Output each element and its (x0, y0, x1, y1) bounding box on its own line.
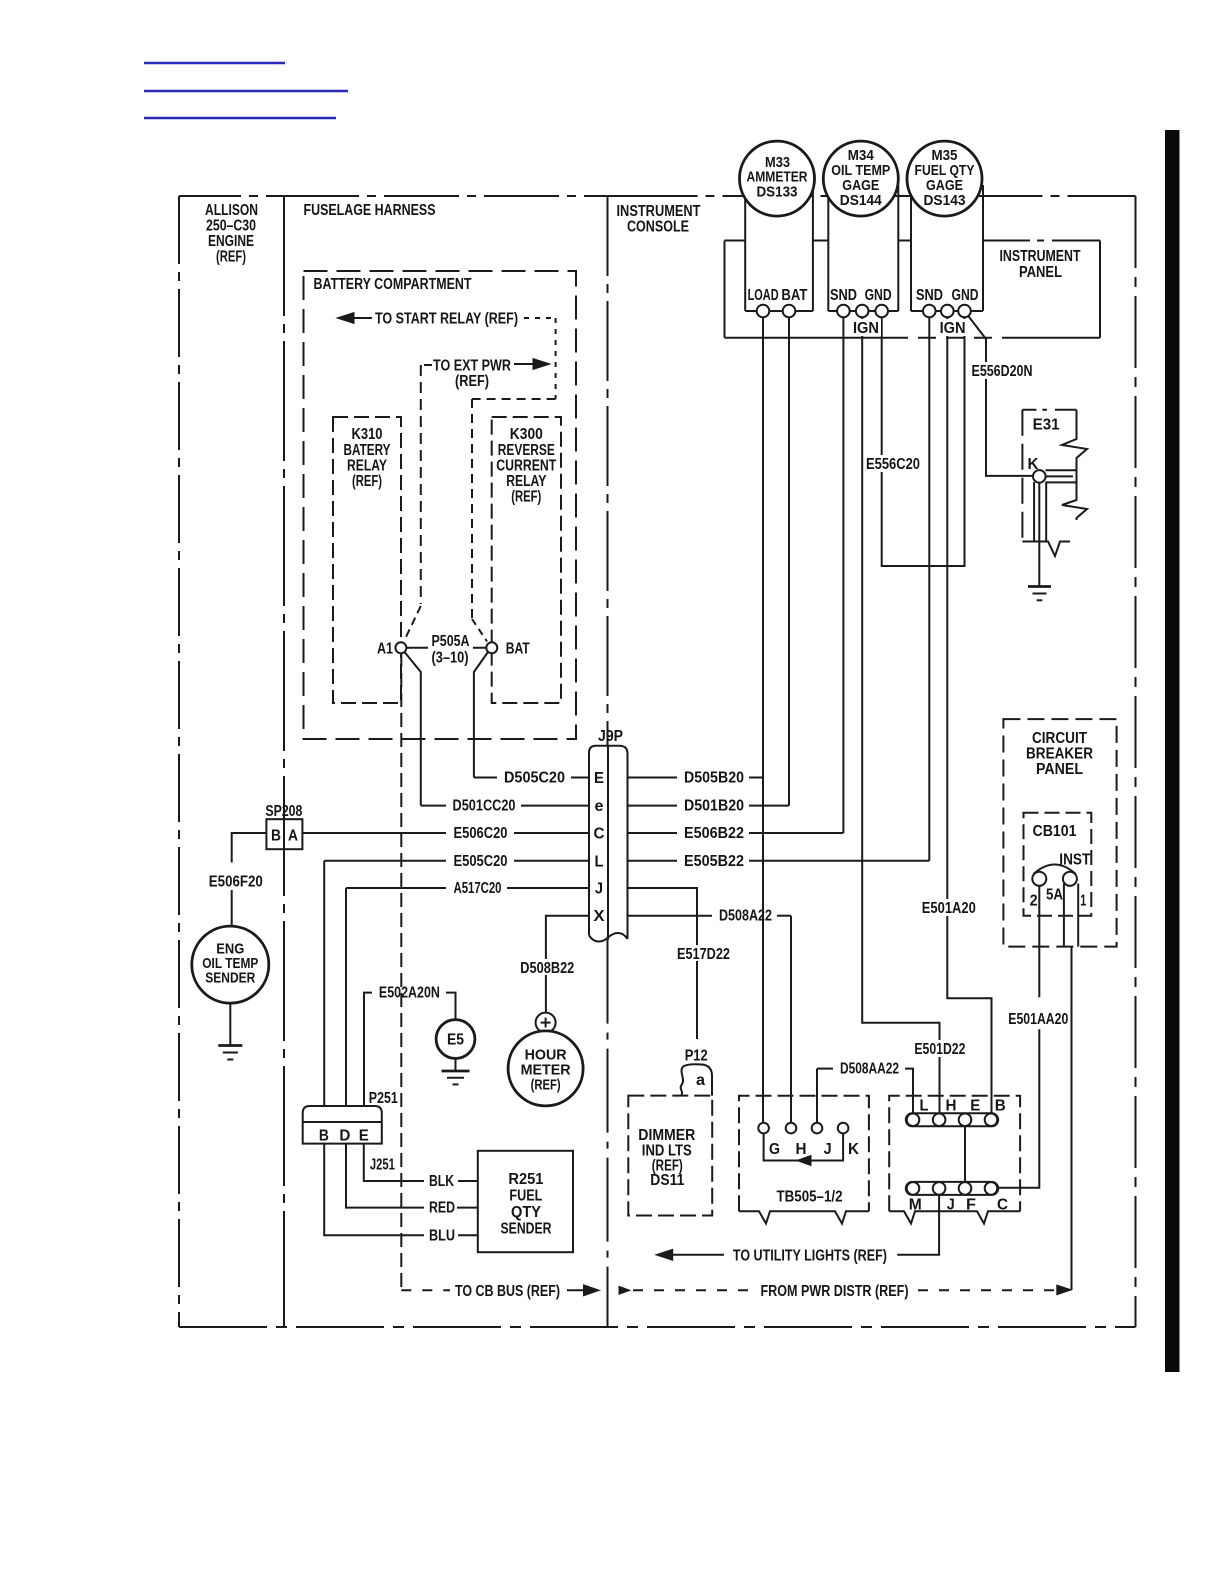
svg-text:(REF): (REF) (511, 489, 541, 506)
svg-text:E556C20: E556C20 (866, 456, 920, 473)
terminal E5 (436, 1020, 475, 1059)
ground (engine oil temp sender) (218, 1046, 242, 1060)
pin C of J9P (594, 826, 605, 843)
svg-text:FUSELAGE HARNESS: FUSELAGE HARNESS (304, 202, 436, 219)
svg-text:D501CC20: D501CC20 (453, 798, 516, 815)
svg-text:RED: RED (429, 1200, 455, 1217)
svg-text:SENDER: SENDER (501, 1221, 552, 1238)
svg-text:E501AA20: E501AA20 (1008, 1011, 1068, 1028)
svg-text:CIRCUIT: CIRCUIT (1032, 730, 1087, 747)
svg-text:A: A (288, 827, 298, 844)
wire D501CC20 (421, 805, 589, 807)
label BATTERY COMPARTMENT (314, 276, 472, 293)
box CIRCUIT BREAKER PANEL (1003, 719, 1116, 947)
label D501CC20 (453, 798, 516, 815)
svg-text:E502A20N: E502A20N (379, 985, 440, 1002)
label TB505-1/2 (777, 1189, 843, 1206)
terminal IGN (M35) (941, 305, 954, 318)
terminal K of TB505 (838, 1123, 849, 1134)
svg-text:(REF): (REF) (216, 249, 246, 266)
wire J9P-J to P12 (E517D22) (628, 888, 698, 1039)
svg-text:L: L (595, 853, 604, 870)
wire BAT down to D501B20 (788, 311, 790, 806)
label FUSELAGE HARNESS (304, 202, 436, 219)
svg-text:QTY: QTY (511, 1204, 541, 1221)
label TO EXT PWR (REF) (433, 358, 511, 391)
svg-text:D: D (339, 1127, 350, 1144)
label J251 (370, 1157, 395, 1174)
wire M35-IGN down (E501A20) to strip B (947, 311, 991, 1115)
dashed wire FROM PWR DISTR (right) (918, 1289, 1056, 1291)
svg-text:D508B22: D508B22 (520, 960, 574, 977)
svg-text:L: L (920, 1098, 929, 1115)
wire E505C20 drop to P251-B (323, 861, 325, 1106)
svg-text:INSTRUMENT: INSTRUMENT (1000, 248, 1081, 265)
wire LOAD down to TB505-G (762, 311, 764, 1123)
wire E505C20 (324, 860, 589, 862)
label E506B22 (684, 825, 744, 842)
wire D505C20 (474, 777, 589, 779)
wire D508B22 from J9P-X to hour meter (546, 916, 589, 1013)
svg-text:D508AA22: D508AA22 (840, 1061, 899, 1078)
dashed path TO START RELAY to BAT (472, 318, 556, 642)
label G (769, 1141, 780, 1158)
svg-text:SND: SND (916, 287, 943, 304)
pin E of P251 (359, 1127, 369, 1144)
pin X of J9P (594, 908, 605, 925)
meter HOUR METER (REF) (508, 1031, 583, 1106)
gauge M35 FUEL QTY GAGE DS143 (907, 141, 982, 216)
svg-text:ALLISON: ALLISON (205, 202, 258, 219)
svg-text:BLU: BLU (429, 1227, 455, 1244)
wire E31-K to ground (1038, 483, 1040, 587)
svg-text:C: C (594, 826, 605, 843)
label E501A20 (921, 899, 979, 917)
svg-text:DS143: DS143 (924, 192, 966, 209)
wire M34-SND down to E506B22 (842, 311, 844, 833)
svg-text:RELAY: RELAY (506, 473, 546, 490)
pin B of P251 (319, 1127, 329, 1144)
boundary: FUSELAGE / INSTRUMENT CONSOLE divider (above J9P) (607, 196, 609, 746)
label E31 (1033, 417, 1060, 434)
label INSTRUMENT PANEL (1000, 248, 1081, 281)
hyperlink rule 1 (144, 62, 285, 64)
arrow TO EXT PWR (514, 359, 550, 370)
strip lower bar (906, 1182, 998, 1195)
svg-text:SP208: SP208 (265, 803, 302, 820)
terminal SND (M35) (923, 305, 936, 318)
svg-text:C: C (997, 1197, 1008, 1214)
wire E506B22 (628, 832, 844, 834)
terminal BAT (M33) (783, 305, 796, 318)
svg-text:ENGINE: ENGINE (208, 233, 254, 250)
strip upper bar (906, 1113, 998, 1126)
svg-text:H: H (946, 1098, 957, 1115)
svg-text:B: B (995, 1098, 1006, 1115)
label BLK (429, 1173, 454, 1190)
splice SP208 box (266, 819, 302, 849)
breaker CB101 arc (1034, 865, 1076, 875)
pin D of P251 (339, 1127, 350, 1144)
svg-text:BAT: BAT (506, 640, 530, 657)
svg-text:E31: E31 (1033, 417, 1060, 434)
wire TB505-J up to D508AA22 (816, 1069, 818, 1123)
instrument panel box (725, 241, 1101, 338)
ground (E31) (1028, 587, 1051, 601)
wire E556D20N from M35-GND to E31-K (968, 316, 1032, 476)
gauge M33 body (745, 185, 813, 311)
boundary: ALLISON / FUSELAGE divider (283, 196, 285, 1327)
label IGN (M34) (851, 319, 881, 337)
wire E506C20 (302, 832, 589, 834)
wire from pwr distr up to CB101-1 (1071, 947, 1073, 1290)
boundary: FUSELAGE HARNESS top (284, 195, 608, 197)
svg-text:e: e (595, 798, 604, 815)
svg-text:TO UTILITY LIGHTS (REF): TO UTILITY LIGHTS (REF) (733, 1247, 887, 1264)
dashed wire FROM PWR DISTR (left) (633, 1289, 754, 1291)
label K310 BATERY RELAY (REF) (344, 426, 391, 490)
gauge M35 body (911, 185, 983, 311)
wire A517C20 drop to P251-D (345, 888, 347, 1106)
svg-text:G: G (769, 1141, 780, 1158)
label CIRCUIT BREAKER PANEL (1026, 730, 1093, 778)
pin a of P12 (696, 1072, 705, 1089)
box TB505 (739, 1096, 869, 1224)
wire J9P-X to D508A22 (628, 915, 792, 917)
label E506F20 (209, 874, 263, 891)
svg-text:E: E (359, 1127, 369, 1144)
label K (E31 stud) (1028, 456, 1039, 473)
ground (E5) (442, 1071, 470, 1084)
label BAT (M33) (781, 287, 807, 304)
svg-text:(REF): (REF) (531, 1077, 561, 1094)
label SND (M34) (830, 287, 857, 304)
label A517C20 (454, 880, 502, 897)
svg-text:H: H (796, 1141, 807, 1158)
svg-text:PANEL: PANEL (1036, 761, 1083, 778)
labels L H E B (920, 1098, 1006, 1115)
breaker box CB101 (1024, 813, 1092, 916)
svg-text:E506F20: E506F20 (209, 874, 263, 891)
svg-text:E506C20: E506C20 (454, 825, 508, 842)
svg-text:D501B20: D501B20 (684, 798, 744, 815)
wire D505B20 (628, 777, 764, 779)
label D501B20 (684, 798, 744, 815)
wire E to F link (964, 1126, 966, 1182)
box BATTERY COMPARTMENT (304, 271, 577, 739)
label IGN (M35) (938, 319, 968, 337)
svg-text:BATERY: BATERY (344, 442, 391, 459)
svg-text:GND: GND (952, 287, 979, 304)
svg-text:INSTRUMENT: INSTRUMENT (617, 203, 701, 220)
wire RED (P251-D) (346, 1144, 478, 1208)
svg-text:A517C20: A517C20 (454, 880, 502, 897)
wire BAT diagonal to D505C20 (474, 652, 488, 778)
svg-text:REVERSE: REVERSE (498, 442, 555, 459)
svg-text:DS144: DS144 (840, 192, 883, 209)
dashed path TO EXT PWR to A1 (405, 365, 433, 640)
change bar (right margin) (1165, 130, 1180, 1372)
svg-text:(REF): (REF) (455, 373, 489, 390)
svg-text:CONSOLE: CONSOLE (627, 219, 689, 236)
svg-text:D508A22: D508A22 (719, 908, 772, 925)
label ALLISON 250-C30 ENGINE (REF) (205, 202, 258, 266)
svg-text:J: J (824, 1141, 832, 1158)
box terminal strip (889, 1096, 1020, 1224)
wire strip-J down to utility lights (897, 1195, 939, 1255)
terminal G of TB505 (758, 1123, 769, 1134)
svg-text:J: J (947, 1197, 955, 1214)
label J9P (598, 728, 623, 745)
svg-text:SND: SND (830, 287, 857, 304)
svg-text:E: E (594, 770, 604, 787)
svg-text:E556D20N: E556D20N (972, 363, 1033, 380)
hour meter plus terminal (536, 1013, 556, 1033)
gauge M33 AMMETER DS133 (740, 141, 815, 216)
label D505C20 (504, 770, 565, 787)
terminal SND (M34) (837, 305, 850, 318)
terminal IGN (M34) (856, 305, 869, 318)
pin E of J9P (594, 770, 604, 787)
svg-text:TB505–1/2: TB505–1/2 (777, 1189, 843, 1206)
label P505A (3-10) (428, 633, 473, 667)
label BLU (429, 1227, 455, 1244)
svg-text:E5: E5 (447, 1032, 464, 1049)
label TO CB BUS (REF) (455, 1283, 560, 1300)
svg-text:5A: 5A (1046, 887, 1063, 904)
svg-text:J: J (595, 881, 603, 898)
label E502A20N (379, 985, 440, 1002)
terminal 2 of CB101 (1032, 872, 1046, 886)
svg-text:BLK: BLK (429, 1173, 454, 1190)
svg-text:X: X (594, 908, 605, 925)
svg-text:E517D22: E517D22 (677, 946, 730, 963)
svg-text:(REF): (REF) (352, 473, 382, 490)
svg-text:(3–10): (3–10) (432, 650, 469, 667)
label D508A22 (719, 908, 772, 925)
dashed wire TO CB BUS (401, 1289, 450, 1291)
svg-text:DS11: DS11 (650, 1172, 684, 1189)
arrow FROM PWR DISTR (entry) (619, 1286, 630, 1294)
wire M34-IGN down to E501D22 jog (862, 311, 939, 1115)
label K300 REVERSE CURRENT RELAY (REF) (496, 426, 556, 506)
wire A1 diagonal to D501CC20 (405, 652, 421, 806)
svg-text:P12: P12 (685, 1048, 708, 1065)
svg-text:B: B (319, 1127, 329, 1144)
connector P12 (681, 1064, 712, 1095)
boundary: bottom border of all compartments (179, 1326, 1136, 1328)
svg-text:TO EXT PWR: TO EXT PWR (433, 358, 511, 375)
svg-text:1: 1 (1080, 893, 1086, 910)
sender ENG OIL TEMP SENDER (192, 926, 269, 1003)
ground stud E31 (1022, 410, 1087, 556)
label INSTRUMENT CONSOLE (617, 203, 701, 236)
svg-text:TO START RELAY (REF): TO START RELAY (REF) (375, 311, 518, 328)
svg-text:SENDER: SENDER (205, 970, 255, 987)
dashed wire K310 terminal feed down to CB bus (400, 653, 402, 1290)
svg-text:a: a (696, 1072, 705, 1089)
label A1 (377, 640, 393, 657)
label GND (M35) (952, 287, 979, 304)
svg-text:PANEL: PANEL (1019, 264, 1062, 281)
label D505B20 (684, 770, 744, 787)
svg-text:FUEL: FUEL (509, 1188, 542, 1205)
svg-text:M: M (909, 1197, 922, 1214)
gauge M34 OIL TEMP GAGE DS144 (823, 141, 898, 216)
wire E505B22 (628, 860, 930, 862)
label INST (1059, 852, 1090, 869)
arrow TO CB BUS (567, 1285, 600, 1296)
svg-text:CURRENT: CURRENT (496, 458, 556, 475)
label 5A (1046, 887, 1063, 904)
wire D501B20 (628, 805, 790, 807)
svg-text:BREAKER: BREAKER (1026, 746, 1093, 763)
wire BLU (P251-B) (324, 1144, 478, 1236)
terminal K (1033, 470, 1046, 483)
label pin A of SP208 (288, 827, 298, 844)
svg-text:J9P: J9P (598, 728, 623, 745)
label 1 (1080, 893, 1086, 910)
svg-text:E505B22: E505B22 (684, 853, 744, 870)
label H (796, 1141, 807, 1158)
wire M35-SND down to E505B22 (928, 311, 930, 861)
svg-text:J251: J251 (370, 1157, 395, 1174)
hyperlink rule 3 (144, 117, 336, 119)
label D508B22 (518, 959, 578, 977)
svg-text:CB101: CB101 (1033, 823, 1077, 840)
svg-text:BAT: BAT (781, 287, 807, 304)
svg-text:E505C20: E505C20 (454, 853, 508, 870)
label E501AA20 (1006, 1010, 1070, 1028)
label SP208 (265, 803, 302, 820)
label J (824, 1141, 832, 1158)
label TO START RELAY (REF) (375, 311, 518, 328)
connector J9P body (589, 746, 628, 942)
label TO UTILITY LIGHTS (REF) (733, 1247, 887, 1264)
boundary: FUSELAGE / INSTRUMENT CONSOLE divider (below J9P) (607, 940, 609, 1327)
svg-text:TO CB BUS (REF): TO CB BUS (REF) (455, 1283, 560, 1300)
svg-text:DS133: DS133 (757, 184, 798, 201)
terminal J of TB505 (812, 1123, 823, 1134)
label E556C20 (865, 455, 922, 473)
wire A1 to BAT (P505A) (406, 647, 486, 649)
label GND (M34) (865, 287, 892, 304)
svg-text:LOAD: LOAD (748, 287, 779, 304)
wire D508A22 drop to TB505-H (790, 916, 792, 1123)
connector P251 (303, 1106, 382, 1144)
svg-text:D505C20: D505C20 (504, 770, 565, 787)
wire E506F20 from SP208-B to sender (232, 833, 267, 926)
arrow FROM PWR DISTR (at wire) (1057, 1285, 1072, 1295)
svg-text:2: 2 (1030, 893, 1038, 910)
label E556D20N (969, 362, 1035, 380)
terminal LOAD (757, 305, 770, 318)
relay box K300 REVERSE CURRENT RELAY (REF) (492, 417, 561, 703)
svg-text:K: K (848, 1141, 859, 1158)
wire A517C20 (346, 887, 589, 889)
svg-text:IGN: IGN (940, 320, 966, 337)
svg-text:P251: P251 (369, 1090, 398, 1107)
gauge M34 body (828, 185, 898, 311)
label D508AA22 (817, 1061, 913, 1115)
label P251 (369, 1090, 398, 1107)
pin e of J9P (595, 798, 604, 815)
label P12 (685, 1048, 708, 1065)
terminal GND (M35) (958, 305, 971, 318)
arrow TO UTILITY LIGHTS (656, 1249, 724, 1260)
label pin B of SP208 (271, 827, 281, 844)
svg-text:K300: K300 (510, 426, 543, 443)
wire G-K loop with arrow (764, 1133, 844, 1165)
label E505B22 (684, 853, 744, 870)
svg-text:A1: A1 (377, 640, 393, 657)
boundary: ALLISON engine box (left/top) (179, 196, 284, 1327)
wire CB101-1 prongs at panel edge (1064, 884, 1078, 947)
label E506C20 (454, 825, 508, 842)
boundary: INSTRUMENT CONSOLE right (1135, 196, 1137, 1327)
svg-text:D505B20: D505B20 (684, 770, 744, 787)
terminal GND (M34) (875, 305, 888, 318)
terminal H of TB505 (786, 1123, 797, 1134)
label CB101 (1033, 823, 1077, 840)
wire E5 to ground (455, 1058, 457, 1071)
label RED (429, 1200, 455, 1217)
relay box K310 BATERY RELAY (REF) (333, 417, 401, 703)
label BAT (P505A pin) (506, 640, 530, 657)
svg-text:250–C30: 250–C30 (206, 218, 256, 235)
svg-text:R251: R251 (508, 1171, 543, 1188)
boundary: INSTRUMENT CONSOLE top (608, 195, 1136, 197)
svg-text:P505A: P505A (432, 633, 470, 650)
label SND (M35) (916, 287, 943, 304)
svg-text:K310: K310 (352, 426, 383, 443)
hyperlink rule 2 (144, 90, 348, 92)
terminal A1 (395, 642, 406, 653)
svg-text:E: E (970, 1098, 980, 1115)
arrow TO START RELAY (337, 313, 372, 324)
box DIMMER IND LTS (REF) DS11 (628, 1096, 712, 1216)
terminal BAT (486, 642, 497, 653)
wire CB101-2 down to strip C (E501AA20) (997, 886, 1039, 1188)
svg-text:GND: GND (865, 287, 892, 304)
svg-text:F: F (966, 1197, 976, 1214)
svg-text:BATTERY COMPARTMENT: BATTERY COMPARTMENT (314, 276, 472, 293)
label LOAD (748, 287, 779, 304)
wire sender to ground (229, 1003, 231, 1045)
svg-text:E506B22: E506B22 (684, 825, 744, 842)
svg-text:FROM PWR DISTR (REF): FROM PWR DISTR (REF) (761, 1283, 909, 1300)
terminal 1 of CB101 (1063, 872, 1077, 886)
pin L of J9P (595, 853, 604, 870)
sender box R251 FUEL QTY SENDER (478, 1151, 573, 1252)
label E517D22 (675, 945, 731, 963)
wire M34-GND (E556C20) (882, 311, 965, 566)
svg-text:E501A20: E501A20 (922, 900, 976, 917)
label E505C20 (454, 853, 508, 870)
pin J of J9P (595, 881, 603, 898)
wire BLK (P251-E) (364, 1144, 478, 1181)
svg-text:IGN: IGN (853, 320, 879, 337)
label 2 (1030, 893, 1038, 910)
label FROM PWR DISTR (REF) (761, 1283, 909, 1300)
svg-text:E501D22: E501D22 (914, 1041, 965, 1058)
svg-text:B: B (271, 827, 281, 844)
wire E502A20N bracket (364, 993, 456, 1106)
label E501D22 (912, 1040, 968, 1058)
labels M J F C (909, 1197, 1009, 1214)
label K (848, 1141, 859, 1158)
svg-text:RELAY: RELAY (347, 458, 387, 475)
